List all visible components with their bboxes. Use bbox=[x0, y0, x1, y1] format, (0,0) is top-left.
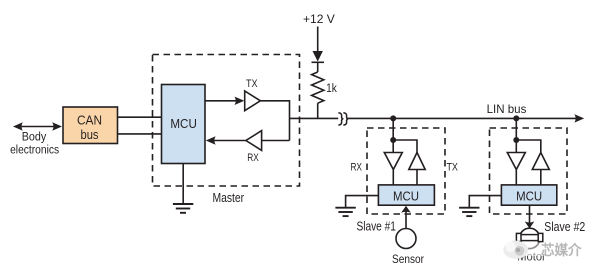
buffer TX (slave 1) bbox=[409, 153, 425, 170]
wire node to RX buffer input bbox=[262, 140, 290, 142]
svg-text:1k: 1k bbox=[326, 83, 337, 95]
svg-text:electronics: electronics bbox=[10, 145, 59, 157]
svg-text:CAN: CAN bbox=[77, 113, 102, 127]
block CAN bus bbox=[63, 107, 118, 144]
svg-text:LIN bus: LIN bus bbox=[487, 102, 527, 116]
wire bus to slave1 node bbox=[392, 118, 394, 152]
wire node to TX buffer (slave 2) bbox=[516, 140, 541, 153]
wire RX buffer to MCU (slave 2) bbox=[515, 170, 517, 185]
svg-text:bus: bus bbox=[81, 128, 99, 142]
block Master dashed boundary bbox=[153, 55, 300, 187]
buffer RX (slave 2) bbox=[507, 153, 525, 170]
svg-text:MCU: MCU bbox=[516, 189, 542, 203]
wire bus to slave2 node bbox=[515, 118, 517, 152]
block MCU slave 2 bbox=[501, 185, 556, 205]
wire MCU to motor (slave 2) bbox=[525, 205, 535, 229]
ground (slave 2) bbox=[459, 208, 479, 216]
svg-text:MCU: MCU bbox=[393, 189, 419, 203]
wire resistor to LIN bus bbox=[317, 103, 319, 118]
svg-text:Sensor: Sensor bbox=[392, 252, 424, 266]
wire sensor to MCU (slave 1) bbox=[401, 206, 411, 229]
svg-text:MCU: MCU bbox=[170, 117, 197, 131]
junction on LIN bus (slave 2) bbox=[513, 115, 519, 121]
ground (master) bbox=[173, 164, 193, 213]
motor M1 bbox=[516, 228, 542, 248]
junction node (slave 2) bbox=[513, 137, 519, 143]
wire CAN to MCU lower bbox=[118, 133, 162, 135]
wire TX output to node bbox=[260, 101, 289, 141]
junction node (slave 1) bbox=[390, 137, 396, 143]
svg-text:TX: TX bbox=[246, 78, 258, 90]
label Body electronics bbox=[10, 131, 59, 156]
wire from +12V down bbox=[317, 27, 319, 53]
sensor S1 bbox=[396, 229, 416, 249]
resistor R1 1k bbox=[312, 72, 324, 103]
wire CAN to MCU upper bbox=[118, 116, 162, 118]
svg-text:Body: Body bbox=[22, 131, 47, 143]
svg-text:Slave #2: Slave #2 bbox=[544, 220, 585, 234]
svg-text:RX: RX bbox=[247, 152, 259, 164]
wire RX buffer to MCU (slave 1) bbox=[392, 170, 394, 185]
wire TX buffer to MCU (slave 1) bbox=[416, 170, 418, 185]
svg-text:Master: Master bbox=[212, 190, 244, 205]
wire RX buffer to MCU bbox=[206, 136, 246, 144]
svg-text:TX: TX bbox=[446, 162, 458, 174]
block Slave #2 dashed boundary bbox=[490, 128, 568, 214]
node Body electronics bidirectional arrow bbox=[13, 122, 62, 130]
block MCU slave 1 bbox=[378, 185, 434, 205]
ground (slave 1) bbox=[335, 208, 355, 216]
wire MCU to ground (slave 2) bbox=[469, 196, 501, 208]
wire LIN bus bbox=[290, 114, 585, 122]
wire MCU to ground (slave 1) bbox=[346, 196, 379, 208]
svg-text:+12 V: +12 V bbox=[303, 14, 335, 26]
wire node to TX buffer (slave 1) bbox=[393, 140, 417, 153]
buffer RX (master) bbox=[246, 131, 262, 151]
watermark halo bbox=[503, 243, 584, 257]
buffer RX (slave 1) bbox=[384, 153, 402, 170]
junction on LIN bus (slave 1) bbox=[390, 115, 396, 121]
buffer TX (slave 2) bbox=[532, 153, 549, 170]
svg-text:Slave #1: Slave #1 bbox=[356, 219, 396, 233]
wire TX buffer to MCU (slave 2) bbox=[540, 170, 542, 185]
wire MCU to TX buffer bbox=[205, 97, 244, 105]
svg-text:RX: RX bbox=[350, 162, 362, 174]
watermark logo bbox=[503, 241, 528, 259]
svg-text:芯媒介: 芯媒介 bbox=[541, 242, 582, 258]
block MCU master U1 bbox=[162, 85, 206, 164]
buffer TX (master) bbox=[245, 91, 261, 111]
break symbol in LIN bus bbox=[338, 113, 347, 125]
block Slave #1 dashed boundary bbox=[367, 128, 445, 214]
